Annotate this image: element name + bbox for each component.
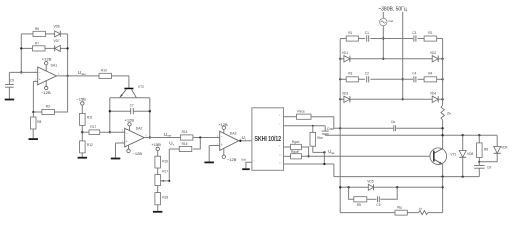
- node: [339, 98, 341, 100]
- wire: [442, 120, 444, 148]
- svg-text:+12В: +12В: [125, 118, 135, 123]
- node: [20, 71, 22, 73]
- ground: [78, 157, 88, 159]
- wire: [496, 153, 498, 162]
- node: [382, 58, 384, 60]
- wire: [479, 161, 497, 163]
- svg-text:R15: R15: [182, 142, 188, 146]
- wire: [283, 146, 290, 148]
- wire: [478, 168, 480, 176]
- node: [441, 134, 443, 136]
- node: [149, 136, 151, 138]
- wire: [370, 38, 413, 40]
- svg-text:VD3: VD3: [342, 91, 348, 95]
- node: [109, 131, 111, 133]
- wire: [32, 81, 34, 117]
- op-amp DA3: [220, 131, 239, 150]
- svg-text:R17: R17: [90, 125, 96, 129]
- node: [307, 155, 309, 157]
- resistor R17: [89, 125, 100, 134]
- wire: [350, 98, 432, 100]
- wire: [168, 149, 170, 181]
- wire: [462, 135, 464, 150]
- wire: [144, 137, 180, 139]
- wire: [438, 58, 442, 60]
- resistor Rgon: [291, 140, 302, 150]
- node: [323, 151, 325, 153]
- capacitor C4: [412, 72, 416, 83]
- resistor R2: [424, 31, 437, 41]
- op-amp DA1: [38, 63, 58, 84]
- wire: [311, 117, 334, 129]
- wire: [418, 78, 425, 80]
- wire: [33, 80, 37, 82]
- ground: [5, 99, 15, 101]
- wire: [428, 212, 443, 214]
- wire: [157, 205, 159, 211]
- wire: [208, 146, 210, 162]
- svg-text:VD2: VD2: [430, 51, 436, 55]
- ground: [29, 138, 39, 140]
- wire: [60, 47, 67, 49]
- node: [312, 125, 314, 127]
- node: [81, 131, 83, 133]
- svg-text:VD7: VD7: [54, 39, 60, 43]
- svg-text:R18: R18: [162, 196, 168, 200]
- svg-text:Rgon: Rgon: [292, 140, 300, 144]
- AC source Uav: [380, 18, 394, 25]
- resistor R5: [354, 197, 367, 207]
- svg-text:R6: R6: [35, 27, 39, 31]
- wire: [115, 143, 117, 158]
- svg-text:C8: C8: [487, 166, 491, 170]
- node: [339, 127, 341, 129]
- wire: [438, 98, 442, 100]
- svg-text:R12: R12: [87, 143, 93, 147]
- node: [441, 175, 443, 177]
- resistor R1: [346, 31, 358, 41]
- node: [339, 58, 341, 60]
- resistor R18: [155, 193, 168, 205]
- wire: [324, 134, 326, 136]
- wire emitter rail: [334, 176, 479, 178]
- svg-text:VT2: VT2: [138, 85, 144, 89]
- wire: [157, 186, 159, 193]
- power -15V: [76, 96, 86, 105]
- svg-text:VD5: VD5: [367, 180, 373, 184]
- svg-text:R4: R4: [428, 72, 432, 76]
- node: [441, 58, 443, 60]
- wire: [462, 157, 464, 176]
- wire: [110, 97, 150, 99]
- svg-text:+15В: +15В: [151, 142, 161, 147]
- transistor VT2: [120, 85, 144, 98]
- wire: [9, 71, 37, 73]
- power -12V: [127, 149, 143, 156]
- wire: [374, 186, 443, 188]
- wire: [8, 88, 10, 99]
- svg-text:SKHI 10/12: SKHI 10/12: [254, 136, 281, 144]
- svg-text:Lн: Lн: [419, 206, 423, 210]
- svg-text:R17: R17: [162, 170, 168, 174]
- wire: [478, 158, 480, 166]
- node: [32, 111, 34, 113]
- svg-text:Zн: Zн: [447, 111, 451, 115]
- wire: [46, 33, 55, 35]
- wire: [223, 129, 225, 133]
- wire: [350, 58, 432, 60]
- wire: [340, 186, 368, 188]
- svg-text:R2: R2: [428, 31, 432, 35]
- svg-text:−12В: −12В: [41, 90, 51, 95]
- wire: [149, 98, 151, 138]
- node: [382, 37, 384, 39]
- wire: [246, 162, 252, 168]
- node: [347, 186, 349, 188]
- svg-text:−: −: [39, 71, 41, 75]
- wire: [128, 76, 130, 88]
- wire: [442, 164, 444, 176]
- wire: [382, 12, 384, 18]
- wire: [402, 12, 404, 99]
- wire: [45, 80, 47, 86]
- svg-text:+: +: [221, 143, 223, 147]
- node: [339, 186, 341, 188]
- svg-text:VD9: VD9: [501, 146, 507, 150]
- svg-text:C7: C7: [130, 104, 134, 108]
- wire: [367, 198, 377, 200]
- svg-text:VD6: VD6: [54, 25, 60, 29]
- wire: [370, 78, 413, 80]
- node: [168, 180, 170, 182]
- svg-text:−12В: −12В: [133, 151, 143, 156]
- wire: [358, 38, 365, 40]
- capacitor C2: [365, 72, 369, 83]
- wire: [45, 47, 55, 49]
- wire: [333, 164, 335, 177]
- wire: [21, 47, 32, 49]
- svg-text:C9: C9: [10, 79, 14, 83]
- wire: [334, 127, 393, 129]
- wire negative rail: [339, 39, 341, 213]
- wire: [325, 134, 497, 136]
- resistor Rgoff: [291, 150, 302, 159]
- node: [441, 78, 443, 80]
- wire: [45, 65, 47, 71]
- wire: [112, 75, 129, 77]
- power +12V: [42, 56, 52, 65]
- wire: [442, 177, 444, 213]
- wire: [349, 187, 354, 199]
- node: [396, 186, 398, 188]
- svg-text:−15В: −15В: [76, 96, 86, 101]
- svg-text:C1: C1: [365, 31, 369, 35]
- capacitor C3: [412, 31, 416, 42]
- resistor R6: [33, 27, 46, 37]
- wire: [340, 212, 395, 214]
- svg-text:C2: C2: [365, 72, 369, 76]
- wire: [8, 72, 10, 84]
- power -12V: [222, 155, 237, 162]
- svg-text:Cв: Cв: [391, 120, 395, 124]
- wire: [209, 145, 220, 147]
- node: [199, 136, 201, 138]
- wire: [193, 138, 201, 150]
- svg-text:Rш: Rш: [397, 205, 402, 209]
- wire: [57, 75, 100, 77]
- resistor R9: [42, 105, 55, 115]
- capacitor C8: [474, 165, 491, 169]
- wire: [54, 76, 67, 112]
- node: [66, 75, 68, 77]
- wire: [283, 155, 290, 157]
- wire: [283, 163, 334, 165]
- capacitor C7: [130, 104, 134, 115]
- svg-text:DA1: DA1: [51, 63, 58, 67]
- svg-text:R3: R3: [348, 72, 352, 76]
- wire: [437, 78, 443, 80]
- diode VD8: [459, 151, 473, 158]
- resistor R14: [180, 130, 193, 140]
- diode VD6: [54, 25, 61, 37]
- arrowhead RP17 wiper: [161, 180, 164, 182]
- wire: [157, 151, 159, 157]
- capacitor Cvce: [322, 127, 335, 134]
- resistor R7: [33, 42, 46, 51]
- svg-text:Cvce: Cvce: [327, 127, 334, 131]
- wire: [239, 140, 252, 142]
- svg-text:Rce: Rce: [317, 136, 323, 140]
- power -12V: [41, 86, 51, 95]
- wire: [60, 33, 67, 35]
- svg-text:−: −: [126, 132, 128, 136]
- wire: [312, 126, 314, 133]
- node: [478, 161, 480, 163]
- svg-text:C4: C4: [412, 72, 416, 76]
- wire: [340, 38, 346, 40]
- svg-text:R8: R8: [37, 120, 41, 124]
- svg-text:R5: R5: [357, 203, 361, 207]
- svg-text:+12В: +12В: [42, 56, 52, 61]
- resistor R12: [80, 141, 93, 153]
- wire: [312, 146, 314, 152]
- wire: [340, 58, 344, 60]
- capacitor Cv: [391, 120, 396, 131]
- power +12V circle: [222, 126, 225, 129]
- svg-text:R7: R7: [35, 42, 39, 46]
- node: [149, 110, 151, 112]
- resistor R8: [30, 117, 41, 129]
- resistor R15: [179, 142, 192, 152]
- svg-text:Gnd: Gnd: [241, 158, 246, 162]
- wire: [129, 126, 131, 131]
- wire: [496, 135, 498, 146]
- power +15V: [151, 142, 161, 151]
- diode VD1: [342, 51, 350, 62]
- node: [402, 78, 404, 80]
- node: [441, 127, 443, 129]
- capacitor C9: [5, 79, 14, 88]
- resistor R10: [99, 69, 112, 79]
- wire: [407, 212, 418, 214]
- wire: [100, 131, 125, 133]
- op-amp DA2: [125, 126, 145, 147]
- wire: [169, 148, 179, 150]
- power +12V: [125, 118, 135, 126]
- wire: [283, 125, 325, 127]
- wire: [478, 135, 480, 143]
- svg-text:R1: R1: [348, 31, 352, 35]
- wire: [81, 153, 83, 157]
- resistor Rsh: [395, 205, 407, 215]
- wire: [67, 34, 69, 76]
- arrowhead VT2 emitter: [119, 94, 122, 98]
- ground: [204, 162, 214, 164]
- wire: [116, 142, 125, 144]
- diode VD9: [494, 146, 508, 154]
- svg-text:Uав: Uав: [388, 19, 394, 23]
- svg-text:VD1: VD1: [342, 51, 348, 55]
- wire: [33, 111, 42, 113]
- wire: [21, 33, 33, 35]
- diode VD4: [430, 91, 438, 102]
- wire: [32, 129, 34, 138]
- wire: [418, 38, 425, 40]
- svg-text:R8: R8: [484, 147, 488, 151]
- shunt Ln zigzag: [418, 206, 427, 214]
- ground: [111, 158, 121, 160]
- wire: [128, 145, 130, 149]
- wire: [437, 38, 443, 40]
- node: [402, 98, 404, 100]
- node: [462, 134, 464, 136]
- diode VD2: [430, 51, 438, 62]
- wire: [324, 126, 326, 132]
- resistor R8sn: [477, 143, 489, 158]
- wire: [110, 110, 131, 112]
- svg-text:+: +: [39, 78, 41, 82]
- node: [339, 78, 341, 80]
- node: [323, 163, 325, 165]
- node: [441, 186, 443, 188]
- svg-text:Rgoff: Rgoff: [291, 150, 299, 154]
- driver IC U1 SKHI 10/12: [252, 108, 284, 171]
- wire: [283, 116, 296, 118]
- capacitor C5: [376, 196, 380, 207]
- resistor RP17 potentiometer: [155, 170, 168, 186]
- wire: [81, 125, 83, 140]
- resistor R3: [346, 72, 358, 82]
- svg-text:DA3: DA3: [230, 132, 237, 136]
- svg-text:~380В, 50Гц: ~380В, 50Гц: [378, 7, 407, 13]
- wire: [358, 78, 365, 80]
- svg-text:VD4: VD4: [430, 91, 436, 95]
- wire: [161, 180, 170, 182]
- wire: [133, 110, 150, 112]
- svg-text:C5: C5: [376, 203, 380, 207]
- resistor Rce: [310, 132, 323, 146]
- svg-text:VD8: VD8: [467, 152, 473, 156]
- svg-text:R14: R14: [182, 130, 188, 134]
- svg-text:−12В: −12В: [227, 157, 237, 162]
- node: [462, 175, 464, 177]
- node: [20, 47, 22, 49]
- resistor R16: [155, 156, 168, 168]
- diode VD7: [54, 39, 61, 51]
- wire: [313, 151, 325, 153]
- node: [109, 110, 111, 112]
- svg-text:R16: R16: [162, 159, 168, 163]
- svg-text:−: −: [221, 135, 223, 139]
- node: [441, 98, 443, 100]
- wire: [396, 127, 442, 129]
- capacitor C1: [365, 31, 369, 42]
- svg-text:R9: R9: [46, 105, 50, 109]
- diode VD3: [342, 91, 350, 102]
- wire: [340, 98, 344, 100]
- resistor R11: [80, 113, 93, 125]
- transistor VT1: [430, 148, 456, 165]
- svg-text:Rvce: Rvce: [298, 110, 305, 114]
- wire: [301, 147, 308, 156]
- load Zn zigzag: [441, 105, 451, 120]
- wire: [382, 26, 384, 59]
- wire: [82, 131, 89, 133]
- diode VD5: [367, 180, 373, 191]
- ground: [242, 168, 250, 170]
- svg-text:R10: R10: [101, 69, 107, 73]
- node: [66, 47, 68, 49]
- wire: [380, 187, 397, 199]
- wire positive rail: [442, 39, 444, 106]
- svg-text:R11: R11: [87, 116, 93, 120]
- node: [478, 134, 480, 136]
- resistor Rvce: [297, 110, 312, 120]
- svg-text:DA2: DA2: [136, 126, 143, 130]
- wire: [109, 98, 111, 132]
- ground: [153, 211, 163, 213]
- node: [239, 140, 241, 142]
- svg-text:C3: C3: [412, 31, 416, 35]
- wire to VT1 base: [301, 155, 433, 157]
- resistor R4: [424, 72, 437, 82]
- wire: [20, 34, 22, 73]
- wire: [81, 105, 83, 113]
- wire: [323, 152, 325, 164]
- wire: [157, 168, 159, 175]
- wire: [193, 137, 220, 139]
- svg-text:VT1: VT1: [450, 152, 456, 156]
- wire: [223, 148, 225, 155]
- arrowhead VT1 emitter: [439, 162, 442, 165]
- svg-text:+: +: [126, 140, 128, 144]
- wire: [340, 78, 346, 80]
